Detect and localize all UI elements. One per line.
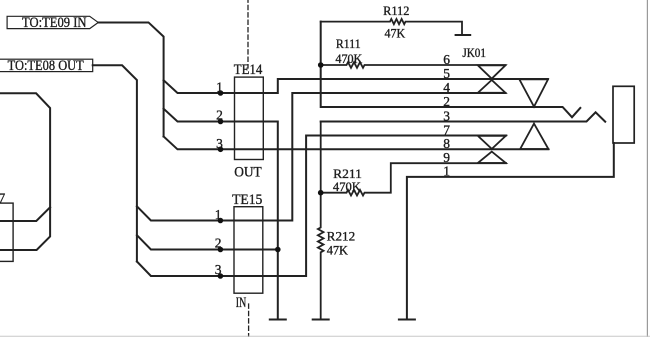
- svg-text:IN: IN: [236, 295, 247, 311]
- JK01 ring contact pin 2: [519, 79, 548, 106]
- svg-text:47K: 47K: [327, 243, 349, 258]
- wire TE14 pin 1 to JK01 pin 5: [164, 79, 548, 93]
- ground (JK01 pin 1 net): [399, 319, 415, 321]
- svg-text:TO:TE09 IN: TO:TE09 IN: [22, 15, 87, 31]
- resistor R111 / JK01 pin 6: [321, 62, 506, 68]
- svg-text:3: 3: [215, 262, 222, 277]
- page edge line bottom: [0, 335, 650, 337]
- svg-text:1: 1: [215, 207, 222, 222]
- junction TE15 pin 1: [218, 218, 224, 224]
- junction R211: [318, 190, 324, 196]
- JK01 switch contact pins 5-4: [478, 80, 506, 93]
- jumper TE14: [235, 77, 264, 159]
- ground (R212 net): [313, 319, 329, 321]
- svg-text:R111: R111: [336, 36, 361, 51]
- resistor R212: [318, 122, 324, 320]
- svg-text:470K: 470K: [333, 179, 362, 194]
- wire TE15 pin 1 to JK01 pin 4: [137, 93, 506, 221]
- ground (R112): [456, 34, 471, 36]
- dashed line bottom: [248, 304, 250, 337]
- svg-text:47K: 47K: [385, 25, 406, 40]
- wire TE14 pin 3 to JK01 pin 8: [164, 137, 549, 150]
- wire left connector upper: [0, 93, 50, 250]
- svg-text:470K: 470K: [335, 51, 362, 66]
- svg-text:OUT: OUT: [234, 164, 262, 180]
- wire TE14 pin 2 to ground: [164, 109, 278, 320]
- wire JK01 pin 2: [321, 22, 581, 118]
- junction TE15 pin 3: [218, 273, 224, 279]
- svg-text:7: 7: [443, 122, 450, 137]
- wire left connector branch: [0, 207, 50, 221]
- junction ground net: [275, 247, 281, 253]
- JK01 switch contact pins 7-8: [478, 136, 506, 149]
- connector (partial, left edge): [0, 203, 13, 261]
- svg-text:1: 1: [443, 164, 450, 179]
- wire JK01 pin 3: [321, 112, 606, 121]
- jack body: [613, 86, 634, 143]
- flag TO:TE08 OUT: [0, 59, 93, 71]
- ground (TE15 pin 2 net): [270, 319, 286, 321]
- junction TE14 pin 1: [218, 90, 224, 96]
- svg-text:6: 6: [443, 52, 450, 67]
- svg-text:8: 8: [443, 136, 450, 151]
- JK01 switch contact pins 8-9: [478, 152, 506, 163]
- svg-text:TE14: TE14: [234, 62, 262, 78]
- junction TE14 pin 2: [218, 119, 224, 125]
- svg-text:R112: R112: [383, 3, 409, 18]
- wire TE15 pin 2: [137, 235, 278, 249]
- page edge line right: [646, 0, 648, 337]
- wire JK01 pin 1: [407, 143, 614, 320]
- dashed line top: [247, 0, 249, 68]
- svg-text:3: 3: [216, 136, 223, 151]
- svg-text:TE15: TE15: [232, 192, 262, 208]
- svg-text:1: 1: [216, 80, 223, 95]
- wire TE15 pin 3 to JK01 pin 7: [137, 136, 506, 277]
- svg-text:JK01: JK01: [462, 46, 486, 60]
- svg-text:TO:TE08 OUT: TO:TE08 OUT: [8, 58, 84, 74]
- JK01 tip contact pin 3: [520, 124, 548, 149]
- junction TE14 pin 3: [218, 147, 224, 153]
- svg-text:4: 4: [443, 80, 450, 95]
- svg-text:2: 2: [216, 108, 223, 123]
- svg-text:3: 3: [443, 108, 450, 123]
- svg-text:2: 2: [443, 94, 450, 109]
- junction TE15 pin 2: [218, 247, 224, 253]
- svg-text:2: 2: [215, 236, 222, 251]
- flag TO:TE09 IN: [7, 16, 98, 28]
- junction R111: [318, 62, 324, 68]
- resistor R112: [321, 19, 462, 35]
- wire from TO:TE09 IN flag: [98, 22, 163, 136]
- svg-text:7: 7: [0, 191, 6, 206]
- resistor R211 / JK01 pin 9: [321, 163, 506, 195]
- jumper TE15: [234, 207, 263, 294]
- svg-text:5: 5: [443, 66, 450, 81]
- wire from TO:TE08 OUT flag: [93, 65, 137, 261]
- JK01 switch contact pins 6-5: [478, 65, 506, 78]
- svg-text:R212: R212: [327, 229, 356, 244]
